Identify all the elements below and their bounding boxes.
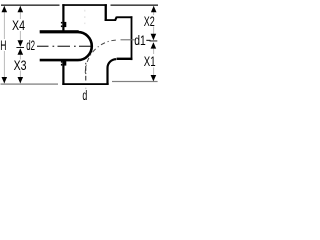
svg-text:H: H	[0, 38, 6, 53]
svg-text:X2: X2	[144, 14, 155, 29]
svg-text:d2: d2	[26, 38, 35, 53]
svg-text:d: d	[82, 88, 87, 101]
svg-text:X3: X3	[14, 58, 27, 73]
svg-text:X4: X4	[12, 18, 25, 33]
svg-text:d1: d1	[134, 33, 146, 48]
svg-text:X1: X1	[144, 54, 156, 69]
